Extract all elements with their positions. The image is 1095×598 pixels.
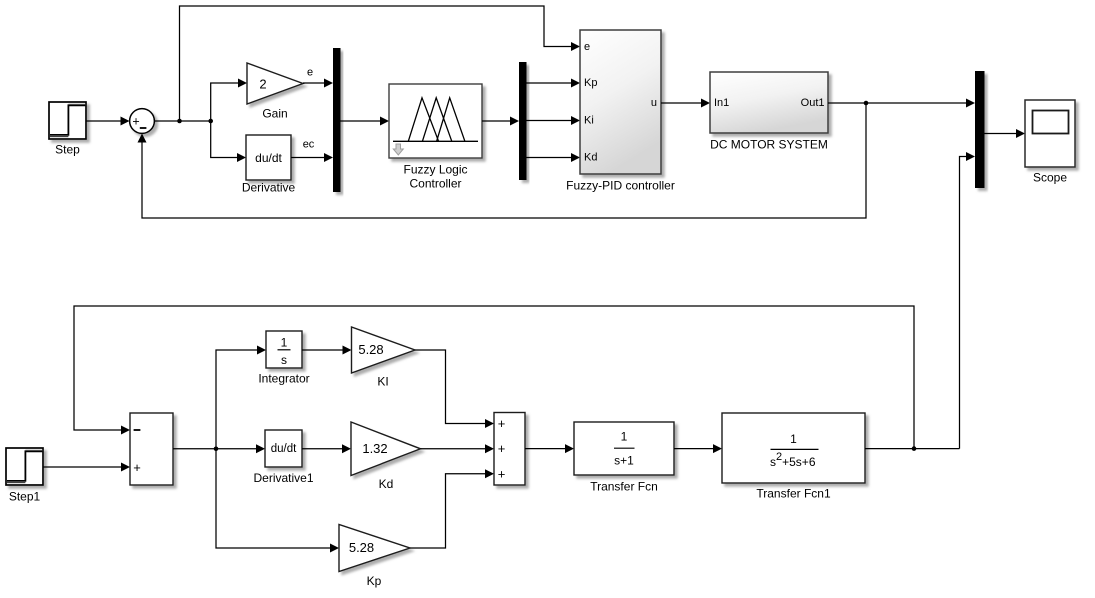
svg-text:5.28: 5.28 [349, 540, 374, 555]
label Transfer Fcn1 [756, 487, 831, 501]
wire Sum1 output to node D [173, 448, 216, 450]
wire Mux2 to Fuzzy-PID Kd input [527, 153, 581, 162]
svg-text:u: u [651, 97, 657, 109]
wire Fuzzy-PID u to DC MOTOR SYSTEM In1 [661, 99, 710, 108]
mux Mux3 (scope mux bar) [975, 71, 985, 188]
svg-text:Transfer Fcn: Transfer Fcn [590, 480, 658, 494]
label Derivative1 [253, 471, 313, 485]
svg-text:Kd: Kd [379, 477, 394, 491]
label KI [377, 375, 388, 389]
label Step1 [9, 490, 41, 504]
node E (plant output tap) [912, 446, 917, 451]
wire Sum2 to Transfer Fcn [525, 444, 574, 453]
svg-text:Transfer Fcn1: Transfer Fcn1 [756, 487, 831, 501]
svg-text:Gain: Gain [262, 107, 287, 121]
svg-text:5.28: 5.28 [358, 342, 383, 357]
svg-text:+: + [132, 115, 139, 129]
wire Step to Sum [86, 117, 130, 126]
wire node D to Kp gain [216, 449, 339, 553]
sum Sum1 (rectangular -/+) [130, 413, 173, 485]
wire node D to Integrator [216, 346, 266, 449]
wire feedback node C to Sum minus input [138, 103, 867, 218]
svg-text:Controller: Controller [409, 177, 461, 191]
svg-text:Derivative: Derivative [242, 181, 296, 195]
block Step (step source) [49, 102, 86, 139]
label Fuzzy-PID controller [566, 179, 675, 193]
wire Kd to Sum2 middle plus input [421, 444, 495, 453]
node C (output tap) [864, 101, 869, 106]
wire Transfer Fcn to Transfer Fcn1 [674, 444, 722, 453]
block Fuzzy Logic Controller [389, 84, 482, 158]
block Transfer Fcn 1/(s+1) [574, 422, 674, 475]
wire Mux3 to Scope [985, 129, 1026, 138]
wire DC MOTOR SYSTEM Out1 to Mux3 [828, 99, 975, 108]
label Integrator [258, 372, 309, 386]
wire KI to Sum2 first plus input [415, 350, 494, 428]
block Derivative1 du/dt [265, 430, 302, 467]
block Integrator 1/s [266, 331, 302, 368]
gain Kp (value 5.28) [339, 525, 410, 572]
wire Mux2 to Fuzzy-PID Ki input [527, 116, 581, 125]
label Kd [379, 477, 394, 491]
svg-text:Derivative1: Derivative1 [253, 471, 313, 485]
svg-text:Integrator: Integrator [258, 372, 309, 386]
sum junction Sum (circle +/-) [130, 109, 155, 134]
svg-text:s+1: s+1 [614, 454, 634, 468]
svg-text:Step1: Step1 [9, 490, 41, 504]
label DC MOTOR SYSTEM [710, 138, 828, 152]
mux Mux1 (black bar) [333, 48, 341, 192]
wire Derivative to Mux (signal ec) [291, 153, 333, 162]
node B (gain/derivative branch) [208, 119, 213, 124]
wire node A up to Fuzzy-PID e input [180, 6, 581, 121]
block Derivative du/dt [246, 135, 291, 180]
label Kp [367, 574, 382, 588]
svg-text:du/dt: du/dt [255, 151, 282, 165]
svg-text:Step: Step [55, 143, 80, 157]
signal label ec [303, 139, 315, 151]
gain Gain (value 2) [247, 63, 303, 104]
wire node B to Derivative input [211, 121, 246, 162]
svg-text:e: e [307, 67, 313, 79]
svg-text:e: e [584, 41, 590, 53]
svg-text:Fuzzy Logic: Fuzzy Logic [403, 163, 467, 177]
node D (PID branch) [214, 447, 219, 452]
svg-text:+: + [498, 466, 506, 481]
block Step1 (step source) [6, 448, 43, 485]
svg-text:+: + [133, 460, 141, 475]
wire node B to Gain input [211, 79, 247, 122]
wire Integrator to KI gain [302, 346, 352, 355]
block Transfer Fcn1 1/(s^2+5s+6) [722, 413, 865, 483]
svg-text:ec: ec [303, 139, 315, 151]
label Derivative [242, 181, 296, 195]
svg-text:+: + [498, 416, 506, 431]
wire Transfer Fcn1 output to node E [865, 448, 960, 450]
wire Mux2 to Fuzzy-PID Kp input [527, 79, 581, 88]
svg-text:Fuzzy-PID controller: Fuzzy-PID controller [566, 179, 675, 193]
svg-text:Ki: Ki [584, 115, 594, 127]
wire node E up to Mux3 second input [960, 152, 976, 449]
wire feedback to Sum1 minus input [74, 306, 914, 449]
wire Fuzzy Logic Controller to Mux2 [482, 117, 519, 126]
wire Sum output to branch nodes [155, 120, 211, 122]
gain KI (value 5.28) [352, 327, 416, 373]
node A (feedback tap) [177, 119, 182, 124]
svg-text:DC MOTOR SYSTEM: DC MOTOR SYSTEM [710, 138, 828, 152]
wire Kp to Sum2 third plus input [410, 469, 494, 548]
svg-text:2: 2 [259, 77, 266, 92]
subsystem DC MOTOR SYSTEM [710, 72, 828, 133]
svg-text:In1: In1 [714, 97, 729, 109]
label Fuzzy Logic Controller [403, 163, 467, 191]
svg-text:Kd: Kd [584, 152, 597, 164]
signal label e [307, 67, 313, 79]
label Transfer Fcn [590, 480, 658, 494]
svg-text:1.32: 1.32 [362, 441, 387, 456]
wire Step1 to Sum1 plus input [43, 463, 130, 472]
sum Sum2 (rectangular +++ ) [494, 413, 525, 486]
svg-text:Kp: Kp [367, 574, 382, 588]
block Scope [1025, 100, 1075, 167]
svg-text:1: 1 [281, 336, 288, 350]
svg-text:Out1: Out1 [801, 97, 825, 109]
wire node D to Derivative1 [216, 444, 265, 453]
svg-text:Scope: Scope [1033, 171, 1067, 185]
label Step [55, 143, 80, 157]
label Scope [1033, 171, 1067, 185]
mux Mux2 (black bar) [519, 62, 527, 180]
svg-text:du/dt: du/dt [271, 443, 297, 455]
svg-text:+: + [498, 441, 506, 456]
svg-text:Kp: Kp [584, 77, 597, 89]
svg-text:1: 1 [621, 430, 628, 444]
svg-text:s: s [281, 353, 287, 367]
wire Mux1 to Fuzzy Logic Controller [341, 117, 390, 126]
wire Derivative1 to Kd gain [302, 444, 351, 453]
subsystem Fuzzy-PID controller [580, 30, 661, 174]
svg-text:1: 1 [790, 432, 797, 446]
label Gain [262, 107, 287, 121]
gain Kd (value 1.32) [351, 422, 421, 476]
svg-text:KI: KI [377, 375, 388, 389]
wire Gain to Mux (signal e) [303, 79, 333, 88]
